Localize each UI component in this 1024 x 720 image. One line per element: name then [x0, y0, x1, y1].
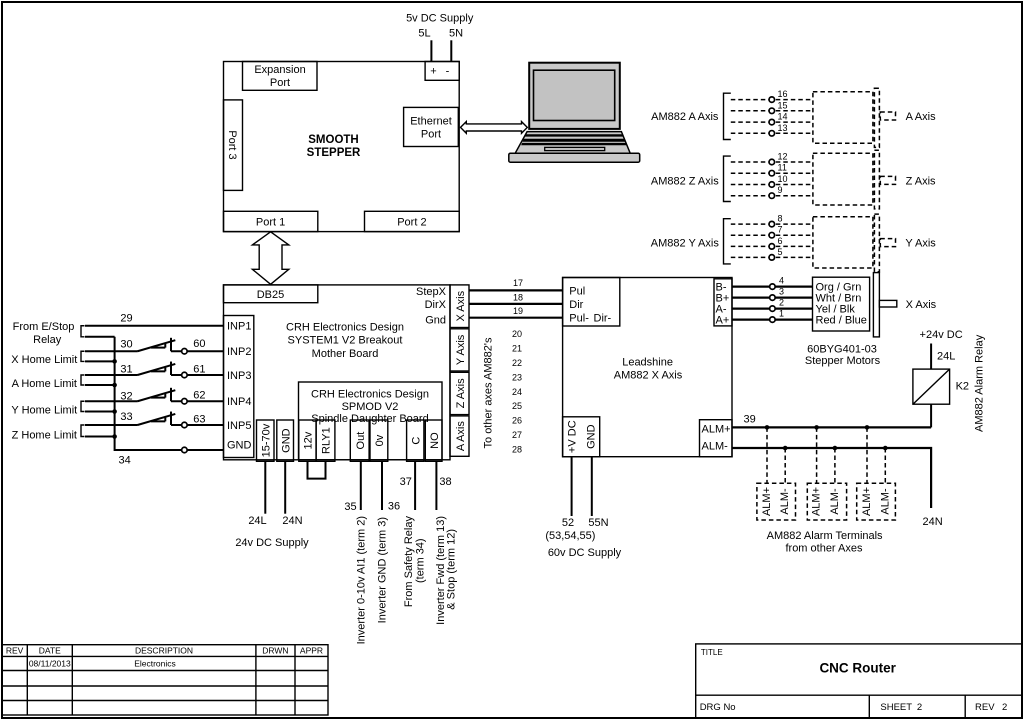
- SPMOD daughter board U-SPM: [299, 382, 443, 460]
- svg-text:2: 2: [1002, 702, 1007, 713]
- SECTION: title block: [2, 644, 1022, 718]
- junction X Home return: [112, 359, 117, 364]
- svg-text:AM882 X Axis: AM882 X Axis: [614, 370, 683, 382]
- svg-text:Z Axis: Z Axis: [455, 378, 467, 408]
- svg-text:34: 34: [118, 455, 130, 467]
- svg-text:Port 2: Port 2: [397, 216, 426, 228]
- svg-text:+24v DC: +24v DC: [920, 329, 963, 341]
- SECTION: alarm: [732, 329, 986, 555]
- svg-text:(term 34): (term 34): [414, 538, 426, 583]
- svg-text:27: 27: [512, 430, 522, 440]
- svg-text:GND: GND: [586, 424, 598, 449]
- svg-text:StepX: StepX: [416, 286, 447, 298]
- svg-text:21: 21: [512, 344, 522, 354]
- svg-text:Y Home Limit: Y Home Limit: [11, 404, 77, 416]
- terminal RLY1: [316, 420, 335, 461]
- wire 55N GND supply: [591, 457, 593, 516]
- svg-text:INP5: INP5: [227, 420, 251, 432]
- wire numbers 20-28: [512, 329, 522, 454]
- SECTION: laptop: [509, 63, 640, 163]
- X axis stepper motor M1: [873, 273, 936, 337]
- Y axis connector on breakout: [450, 329, 469, 371]
- svg-text:Stepper Motors: Stepper Motors: [805, 355, 881, 367]
- svg-text:10: 10: [778, 174, 788, 184]
- svg-text:12v: 12v: [303, 431, 315, 449]
- svg-text:8: 8: [778, 214, 783, 224]
- open circle on GND wire: [182, 447, 188, 453]
- title box: [696, 644, 1022, 718]
- svg-text:SMOOTH: SMOOTH: [308, 134, 358, 146]
- svg-text:AM882 Z Axis: AM882 Z Axis: [651, 175, 719, 187]
- svg-text:+V DC: +V DC: [567, 420, 579, 453]
- laptop computer icon: [509, 63, 640, 163]
- svg-text:2: 2: [917, 702, 922, 713]
- svg-text:Z Axis: Z Axis: [906, 175, 936, 187]
- svg-text:61: 61: [193, 364, 205, 376]
- wire Z Home return: [85, 436, 115, 438]
- svg-text:Dir: Dir: [569, 299, 583, 311]
- dashed wire ALM- drop 3: [884, 448, 886, 483]
- dashed wire ALM+ drop 1: [766, 427, 768, 483]
- svg-text:55N: 55N: [588, 517, 608, 529]
- svg-text:+: +: [430, 66, 436, 78]
- svg-text:AM882 Y Axis: AM882 Y Axis: [651, 238, 720, 250]
- breakout mother board U-BRK: [224, 285, 451, 460]
- svg-text:60v DC Supply: 60v DC Supply: [548, 547, 622, 559]
- relay K2: [913, 369, 969, 404]
- ethernet port connector: [404, 107, 459, 146]
- motor phase connector B-/B+/A-/A+: [714, 279, 732, 327]
- svg-text:C: C: [410, 437, 422, 445]
- svg-text:A Home Limit: A Home Limit: [12, 378, 77, 390]
- svg-text:From E/Stop: From E/Stop: [13, 321, 75, 333]
- A axis connector on breakout: [450, 416, 469, 456]
- ALM output connector: [700, 420, 733, 457]
- SECTION: leadshine: [545, 273, 936, 560]
- svg-text:2: 2: [779, 297, 784, 307]
- Pul/Dir input connector: [563, 278, 620, 327]
- svg-text:22: 22: [512, 358, 522, 368]
- junction ALM+ tap 3: [865, 425, 870, 430]
- svg-text:INP1: INP1: [227, 321, 251, 333]
- svg-text:Gnd: Gnd: [425, 314, 446, 326]
- svg-text:0v: 0v: [374, 434, 386, 446]
- svg-text:ALM+: ALM+: [811, 487, 823, 516]
- svg-text:Relay: Relay: [33, 334, 62, 346]
- svg-text:INP2: INP2: [227, 346, 251, 358]
- dashed wire ALM- drop 2: [834, 448, 836, 483]
- wire ALM- bus to 24N: [732, 448, 931, 508]
- svg-text:5L: 5L: [418, 28, 430, 40]
- svg-text:X Axis: X Axis: [906, 299, 937, 311]
- svg-text:Z Home Limit: Z Home Limit: [12, 430, 77, 442]
- X axis connector on breakout: [450, 285, 469, 328]
- SECTION: breakout board: [224, 278, 563, 461]
- svg-text:RLY1: RLY1: [321, 427, 333, 454]
- svg-text:24N: 24N: [282, 515, 302, 527]
- svg-text:ALM+: ALM+: [861, 487, 873, 516]
- svg-text:REV: REV: [6, 646, 24, 656]
- wire 3 B+ to Wht/Brn: [732, 297, 813, 299]
- wire 39 ALM+ bus: [732, 426, 931, 428]
- svg-text:SHEET: SHEET: [880, 702, 912, 713]
- svg-text:60BYG401-03: 60BYG401-03: [807, 343, 877, 355]
- dashed wire ALM- drop 1: [784, 448, 786, 483]
- svg-text:5N: 5N: [449, 28, 463, 40]
- svg-text:DRG No: DRG No: [700, 702, 736, 713]
- svg-text:ALM-: ALM-: [702, 440, 729, 452]
- svg-text:INP3: INP3: [227, 370, 251, 382]
- port 2 connector: [365, 211, 460, 231]
- wire 52 +V DC supply: [571, 457, 573, 516]
- svg-text:Leadshine: Leadshine: [622, 357, 673, 369]
- svg-text:ALM-: ALM-: [829, 488, 841, 515]
- alarm terminal block 3 (dashed): [857, 483, 896, 520]
- junction ALM- tap 2: [833, 446, 838, 451]
- svg-text:CNC Router: CNC Router: [819, 660, 896, 675]
- svg-text:Out: Out: [355, 432, 367, 450]
- svg-text:30: 30: [120, 339, 132, 351]
- switch SW-X on INP2 wire: [85, 338, 224, 354]
- svg-text:33: 33: [120, 411, 132, 423]
- wire GND stub from circle to GND terminal: [187, 449, 223, 451]
- dashed wire ALM+ drop 2: [816, 427, 818, 483]
- svg-text:6: 6: [778, 236, 783, 246]
- common ground bus wire: [115, 337, 182, 450]
- wire 5N: [450, 40, 452, 61]
- svg-text:CRH Electronics Design: CRH Electronics Design: [311, 388, 429, 400]
- svg-text:Inverter 0-10v AI1 (term 2): Inverter 0-10v AI1 (term 2): [356, 516, 368, 644]
- svg-text:ALM+: ALM+: [761, 487, 773, 516]
- junction ALM- tap 3: [883, 446, 888, 451]
- terminal 12v: [299, 420, 316, 461]
- svg-text:X Home Limit: X Home Limit: [11, 354, 77, 366]
- svg-text:CRH Electronics Design: CRH Electronics Design: [286, 322, 404, 334]
- wire 24N from GND: [284, 461, 286, 513]
- svg-text:A Axis: A Axis: [455, 421, 467, 451]
- terminal NO: [425, 420, 442, 461]
- svg-text:16: 16: [778, 89, 788, 99]
- switch SW-Z on INP5 wire: [85, 412, 224, 428]
- svg-text:GND: GND: [227, 440, 252, 452]
- jumper wire 12v to RLY1: [308, 461, 326, 478]
- svg-text:62: 62: [193, 390, 205, 402]
- svg-text:AM882 A Axis: AM882 A Axis: [651, 111, 719, 123]
- wire 36 from 0v: [381, 461, 383, 510]
- wire E/Stop return to common: [85, 336, 115, 338]
- svg-text:A Axis: A Axis: [906, 111, 936, 123]
- wire 17 StepX to Pul: [469, 289, 563, 291]
- svg-text:24L: 24L: [937, 351, 955, 363]
- terminal 0v: [370, 420, 388, 461]
- svg-text:Dir-: Dir-: [594, 313, 612, 325]
- svg-text:23: 23: [512, 372, 522, 382]
- wire 35 from Out: [360, 461, 362, 510]
- ethernet cable double arrow: [461, 122, 528, 134]
- svg-text:35: 35: [344, 501, 356, 513]
- wire 18 DirX to Dir: [469, 303, 563, 305]
- bracket E/Stop: [81, 326, 85, 337]
- 15-70v power terminal: [257, 420, 275, 461]
- svg-text:DB25: DB25: [257, 289, 285, 301]
- svg-text:Y Axis: Y Axis: [455, 334, 467, 365]
- wire X Home return: [85, 360, 115, 362]
- Z axis connector on breakout: [450, 372, 469, 414]
- svg-text:20: 20: [512, 329, 522, 339]
- smooth stepper board U-SS: [224, 62, 460, 232]
- svg-text:12: 12: [778, 152, 788, 162]
- svg-text:39: 39: [743, 414, 755, 426]
- svg-text:ALM-: ALM-: [879, 488, 891, 515]
- svg-text:14: 14: [778, 112, 788, 122]
- svg-text:13: 13: [778, 123, 788, 133]
- wire 4 B- to Org/Grn: [732, 286, 813, 288]
- svg-text:SYSTEM1 V2 Breakout: SYSTEM1 V2 Breakout: [288, 335, 403, 347]
- svg-text:1: 1: [779, 308, 784, 318]
- svg-text:9: 9: [778, 185, 783, 195]
- port 1 connector: [224, 211, 318, 231]
- svg-text:4: 4: [779, 275, 784, 285]
- DB25 connector: [224, 285, 318, 303]
- DB25 cable double arrow: [252, 232, 288, 284]
- svg-text:Pul-: Pul-: [569, 313, 589, 325]
- junction ALM+ tap 1: [765, 425, 770, 430]
- svg-text:60: 60: [193, 338, 205, 350]
- svg-text:63: 63: [193, 414, 205, 426]
- wire K2 to ALM+ bus: [930, 404, 932, 427]
- SECTION: left inputs: [11, 313, 223, 467]
- dashed wire ALM+ drop 3: [866, 427, 868, 483]
- svg-text:24: 24: [512, 387, 522, 397]
- svg-text:Expansion: Expansion: [254, 64, 305, 76]
- svg-text:DirX: DirX: [425, 299, 447, 311]
- svg-text:5: 5: [778, 247, 783, 257]
- svg-text:36: 36: [388, 501, 400, 513]
- svg-text:Port: Port: [421, 128, 441, 140]
- svg-text:08/11/2013: 08/11/2013: [29, 658, 71, 668]
- svg-text:GND: GND: [280, 428, 292, 453]
- svg-text:24v DC Supply: 24v DC Supply: [235, 537, 309, 549]
- motor wire colour box: [813, 277, 870, 331]
- junction ALM- tap 1: [783, 446, 788, 451]
- svg-text:29: 29: [120, 313, 132, 325]
- wire 5L: [430, 40, 432, 61]
- svg-text:TITLE: TITLE: [701, 648, 723, 657]
- bracket Y Home: [81, 401, 85, 411]
- svg-text:AM882 Alarm Terminals: AM882 Alarm Terminals: [767, 530, 883, 542]
- svg-text:37: 37: [400, 476, 412, 488]
- svg-text:19: 19: [513, 306, 523, 316]
- svg-text:Inverter GND (term 3): Inverter GND (term 3): [377, 517, 389, 623]
- svg-text:26: 26: [512, 416, 522, 426]
- svg-text:STEPPER: STEPPER: [307, 147, 361, 159]
- Leadshine AM882 X axis driver U-LS: [563, 278, 732, 457]
- SECTION: spmod bottom: [235, 382, 457, 644]
- revision table: [2, 645, 328, 715]
- svg-text:24N: 24N: [923, 516, 943, 528]
- svg-text:(53,54,55): (53,54,55): [545, 530, 595, 542]
- svg-text:Red / Blue: Red / Blue: [816, 315, 867, 327]
- svg-text:& Stop (term 12): & Stop (term 12): [446, 529, 458, 610]
- svg-text:Port 1: Port 1: [256, 216, 285, 228]
- svg-text:32: 32: [120, 391, 132, 403]
- switch SW-A on INP3 wire: [85, 362, 224, 378]
- input terminal strip INP1-GND: [224, 316, 254, 458]
- wire 24L to K2: [930, 344, 932, 370]
- svg-text:3: 3: [779, 286, 784, 296]
- wire 1 A+ to Red/Blue: [732, 319, 813, 321]
- switch SW-Y on INP4 wire: [85, 388, 224, 404]
- svg-text:ALM+: ALM+: [702, 423, 731, 435]
- svg-text:17: 17: [513, 278, 523, 288]
- junction A Home return: [112, 383, 117, 388]
- svg-text:5v DC Supply: 5v DC Supply: [406, 12, 474, 24]
- svg-text:31: 31: [120, 364, 132, 376]
- svg-text:To other axes AM882's: To other axes AM882's: [483, 337, 495, 448]
- svg-text:X Axis: X Axis: [455, 290, 467, 321]
- svg-text:DRWN: DRWN: [262, 646, 288, 656]
- AM882 Y Axis driver (dashed): [651, 214, 937, 272]
- svg-text:25: 25: [512, 401, 522, 411]
- svg-text:52: 52: [562, 517, 574, 529]
- alarm terminal block 1 (dashed): [757, 483, 796, 520]
- svg-text:ALM-: ALM-: [779, 488, 791, 515]
- bracket X Home: [81, 351, 85, 361]
- SECTION: am882 dashed rows: [651, 88, 937, 272]
- wire 37 from C: [414, 461, 416, 510]
- svg-text:INP4: INP4: [227, 396, 251, 408]
- AM882 A Axis driver (dashed): [651, 88, 936, 147]
- wire 38 from NO: [435, 461, 437, 510]
- svg-text:Y Axis: Y Axis: [905, 238, 936, 250]
- svg-text:24L: 24L: [248, 515, 266, 527]
- alarm terminal block 2 (dashed): [807, 483, 846, 520]
- expansion port connector: [243, 62, 318, 91]
- svg-text:-: -: [446, 66, 450, 78]
- wire 29 E/Stop to INP1: [85, 325, 224, 327]
- wire Y Home return: [85, 411, 115, 413]
- svg-text:Electronics: Electronics: [134, 658, 176, 668]
- SECTION: smooth stepper: [224, 12, 528, 284]
- svg-text:K2: K2: [956, 381, 969, 393]
- port 3 connector: [224, 100, 243, 190]
- svg-text:AM882 Alarm Relay: AM882 Alarm Relay: [974, 334, 986, 432]
- bracket A Home: [81, 375, 85, 385]
- svg-text:15: 15: [778, 100, 788, 110]
- GND power terminal: [277, 420, 294, 461]
- svg-text:A+: A+: [716, 315, 730, 327]
- svg-text:Mother Board: Mother Board: [312, 348, 379, 360]
- wire 24L from 15-70v: [264, 461, 266, 513]
- svg-text:Pul: Pul: [569, 285, 585, 297]
- terminal Out: [350, 420, 369, 461]
- svg-text:38: 38: [439, 476, 451, 488]
- AM882 Z Axis driver (dashed): [651, 150, 936, 209]
- junction ALM+ tap 2: [814, 425, 819, 430]
- svg-text:7: 7: [778, 225, 783, 235]
- wire A Home return: [85, 384, 115, 386]
- svg-text:Ethernet: Ethernet: [410, 116, 452, 128]
- svg-text:DESCRIPTION: DESCRIPTION: [135, 646, 193, 656]
- svg-text:DATE: DATE: [39, 646, 61, 656]
- svg-text:28: 28: [512, 444, 522, 454]
- junction Y Home return: [112, 409, 117, 414]
- svg-text:NO: NO: [429, 432, 441, 449]
- wire 19 Gnd to Pul-: [469, 317, 563, 319]
- bracket Z Home: [81, 425, 85, 437]
- svg-text:11: 11: [778, 163, 787, 173]
- 5v supply terminal block: [425, 62, 459, 81]
- svg-text:from other Axes: from other Axes: [785, 543, 863, 555]
- svg-text:15-70v: 15-70v: [260, 423, 272, 457]
- junction Z Home return: [112, 434, 117, 439]
- svg-text:APPR: APPR: [300, 646, 323, 656]
- +V DC / GND power connector: [563, 417, 600, 457]
- wire 2 A- to Yel/Blk: [732, 308, 813, 310]
- svg-text:SPMOD V2: SPMOD V2: [342, 401, 399, 413]
- terminal C: [407, 420, 424, 461]
- svg-text:REV: REV: [975, 702, 995, 713]
- svg-text:18: 18: [513, 293, 523, 303]
- svg-text:Port 3: Port 3: [226, 130, 238, 159]
- svg-text:Port: Port: [270, 77, 290, 89]
